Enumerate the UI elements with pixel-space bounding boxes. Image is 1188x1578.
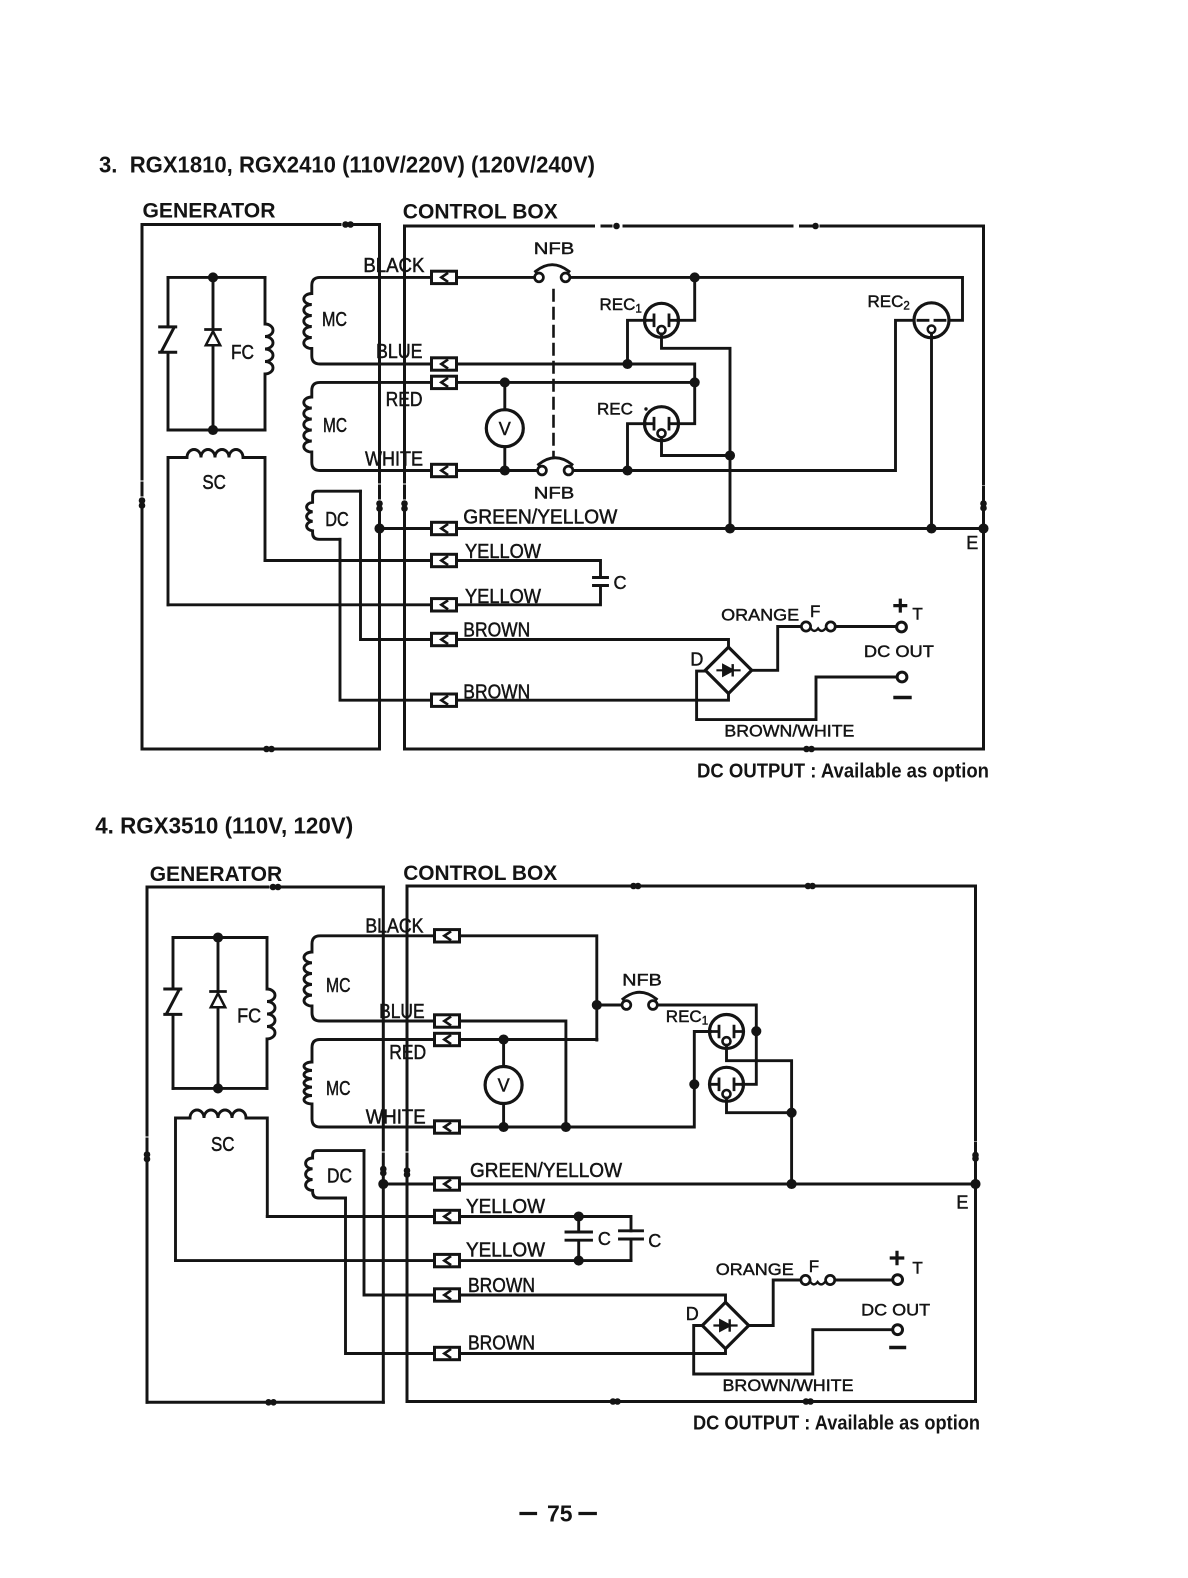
- node YELLOW2/C1: [575, 1257, 582, 1264]
- control box (dash-dot border): [403, 224, 986, 751]
- node BLUE/WHITE 2: [562, 1123, 569, 1130]
- connector YELLOW 1 (2): [435, 1210, 460, 1222]
- svg-text:GREEN/YELLOW: GREEN/YELLOW: [470, 1159, 623, 1182]
- node RED/V 2: [500, 1036, 507, 1043]
- connector BLUE 2: [435, 1015, 460, 1027]
- wire F to T 2: [835, 1279, 893, 1282]
- wire ORANGE 2: [749, 1280, 801, 1326]
- node RED end: [691, 379, 698, 386]
- connector BLACK 2: [435, 930, 460, 942]
- svg-text:DC OUTPUT : Available as optio: DC OUTPUT : Available as option: [697, 761, 989, 783]
- svg-text:E: E: [956, 1193, 968, 1213]
- node BLUE/REC1: [624, 360, 631, 367]
- wire YELLOW 1: [265, 561, 601, 578]
- breaker NFB (bottom): [538, 458, 573, 475]
- svg-text:RED: RED: [389, 1041, 426, 1064]
- svg-text:BROWN: BROWN: [463, 681, 530, 704]
- wire REC2 bottom pin to E: [930, 334, 933, 529]
- svg-text:BROWN: BROWN: [468, 1332, 535, 1355]
- node E/rec 2: [788, 1180, 795, 1187]
- svg-text:YELLOW: YELLOW: [466, 1195, 546, 1218]
- wire YELLOW 2 (2): [176, 1259, 632, 1262]
- svg-text:D: D: [686, 1304, 699, 1324]
- svg-text:NFB: NFB: [622, 971, 662, 990]
- node FC top: [209, 274, 216, 281]
- generator box (dash-dot border): [140, 223, 381, 751]
- connector BLUE: [432, 358, 457, 370]
- svg-text:YELLOW: YELLOW: [465, 540, 542, 563]
- svg-text:MC: MC: [326, 1077, 351, 1100]
- capacitor C: [594, 578, 608, 586]
- svg-text:C: C: [648, 1231, 661, 1251]
- coil MC1 (main winding 1): [304, 277, 432, 364]
- receptacle REC (lower): [645, 407, 679, 441]
- coil SC (sub coil): [168, 450, 265, 605]
- rectifier bridge D: [705, 647, 751, 693]
- connector GREEN/YELLOW: [432, 522, 457, 534]
- connector YELLOW 2 (2): [435, 1254, 460, 1266]
- wire REC lower left pin to WHITE: [628, 424, 646, 471]
- node WHITE/REC: [624, 467, 631, 474]
- connector BROWN 1 (2): [435, 1289, 460, 1301]
- breaker NFB 2: [622, 992, 657, 1009]
- svg-text:ORANGE: ORANGE: [716, 1260, 794, 1279]
- plus sign: [895, 600, 906, 611]
- node REC1 right pin 2: [753, 1028, 760, 1035]
- connector WHITE: [432, 464, 457, 476]
- svg-text:WHITE: WHITE: [365, 448, 423, 471]
- coil MC2 (main winding 2): [304, 382, 432, 470]
- connector RED: [432, 376, 457, 388]
- svg-text:DC OUT: DC OUT: [864, 642, 934, 661]
- wire E (GREEN/YELLOW earth): [380, 527, 984, 530]
- svg-text:BLACK: BLACK: [365, 915, 423, 938]
- coil SC (2): [176, 1110, 268, 1261]
- svg-text:DC OUTPUT : Available as optio: DC OUTPUT : Available as option: [693, 1413, 980, 1435]
- FC loop 2 bottom edge: [173, 1087, 267, 1090]
- svg-text:D: D: [690, 650, 703, 670]
- connector YELLOW 1: [432, 554, 457, 566]
- svg-text:WHITE: WHITE: [366, 1106, 426, 1129]
- svg-text:CONTROL BOX: CONTROL BOX: [403, 861, 558, 885]
- svg-text:4. RGX3510 (110V, 120V): 4. RGX3510 (110V, 120V): [95, 813, 353, 839]
- wire REC1 right pin to BLACK: [678, 277, 695, 320]
- svg-text:BROWN: BROWN: [468, 1274, 535, 1297]
- node gen-edge/GY: [376, 525, 383, 532]
- svg-text:BROWN/WHITE: BROWN/WHITE: [724, 721, 854, 740]
- diode 2: [217, 938, 220, 1089]
- node E at box edge 2: [972, 1180, 979, 1187]
- node E/REC bottoms: [726, 525, 733, 532]
- node E/REC2: [928, 525, 935, 532]
- svg-text:FC: FC: [231, 341, 254, 364]
- terminal T (+) 2: [893, 1275, 903, 1285]
- connector BROWN 1: [432, 633, 457, 645]
- wire BLACK: [457, 277, 963, 320]
- connector BROWN 2: [432, 694, 457, 706]
- wire RED: [457, 381, 695, 384]
- svg-text:CONTROL BOX: CONTROL BOX: [403, 200, 559, 224]
- wire F to T: [835, 625, 896, 628]
- generator box 2 (dash-dot border): [145, 885, 385, 1404]
- fuse F 2: [801, 1275, 835, 1284]
- svg-text:V: V: [498, 1076, 510, 1096]
- varistor Z (left leg of FC loop): [167, 277, 170, 430]
- receptacle REC1: [645, 303, 679, 337]
- connector WHITE 2: [435, 1121, 460, 1133]
- wire REC1 left pin to BLUE: [628, 320, 646, 364]
- svg-text:REC1: REC1: [600, 295, 642, 316]
- voltmeter V 2: [485, 1067, 522, 1104]
- terminal T (+): [897, 622, 907, 632]
- node YELLOW1/C1: [575, 1213, 582, 1220]
- connector YELLOW 2: [432, 599, 457, 611]
- node rec bottoms 2: [788, 1109, 795, 1116]
- coil MC2 (2): [304, 1040, 435, 1128]
- wire REC lower bottom pin: [662, 438, 731, 456]
- connector BROWN 2 (2): [435, 1347, 460, 1359]
- svg-text:E: E: [966, 533, 978, 553]
- svg-text:SC: SC: [202, 471, 226, 494]
- svg-text:DC: DC: [327, 1165, 352, 1188]
- wire YELLOW 1 (2): [267, 1217, 631, 1231]
- fuse F: [801, 622, 835, 631]
- wire YELLOW 2: [168, 586, 601, 605]
- svg-text:GREEN/YELLOW: GREEN/YELLOW: [463, 506, 618, 529]
- node WHITE/V 2: [500, 1123, 507, 1130]
- svg-text:C: C: [598, 1229, 611, 1249]
- FC loop 2 top edge: [173, 936, 267, 939]
- receptacle lower (2): [710, 1067, 744, 1101]
- svg-text:ORANGE: ORANGE: [721, 605, 799, 624]
- FC field-coil loop top edge: [168, 276, 265, 279]
- connector BLACK: [432, 271, 457, 283]
- receptacle REC1 (2): [710, 1015, 744, 1049]
- svg-text:MC: MC: [326, 974, 351, 997]
- node BLACK/REC1: [691, 274, 698, 281]
- svg-text:T: T: [912, 604, 922, 623]
- breaker NFB (top): [535, 265, 570, 282]
- svg-text:REC2: REC2: [868, 292, 910, 313]
- minus sign: [895, 696, 910, 699]
- svg-text:DC OUT: DC OUT: [861, 1301, 930, 1320]
- wire BROWN 2: [340, 539, 729, 700]
- wire BLUE 2: [460, 1021, 566, 1127]
- wire BLACK 2: [460, 936, 597, 1040]
- svg-text:F: F: [809, 1257, 819, 1276]
- rectifier bridge D (2): [702, 1302, 748, 1348]
- node WHITE/V: [501, 467, 508, 474]
- wire minus output 2: [694, 1326, 893, 1375]
- minus sign 2: [891, 1346, 905, 1349]
- wire lower rec right pin 2: [743, 1031, 757, 1084]
- diode (middle leg of FC loop): [212, 277, 215, 430]
- coil DC (2): [306, 1151, 364, 1198]
- svg-text:YELLOW: YELLOW: [466, 1239, 546, 1262]
- node REC bottoms joint: [726, 452, 733, 459]
- node BLACK/NFB 2: [593, 1001, 600, 1008]
- node RED/V: [501, 379, 508, 386]
- wire minus output / BROWN/WHITE: [697, 671, 898, 720]
- svg-text:3. RGX1810, RGX2410 (110V/220: 3. RGX1810, RGX2410 (110V/220V) (120V/24…: [99, 152, 595, 178]
- wire lower rec bottom pin 2: [727, 1098, 792, 1113]
- svg-text:GENERATOR: GENERATOR: [150, 862, 283, 886]
- svg-text:V: V: [499, 419, 511, 439]
- svg-text:NFB: NFB: [534, 484, 575, 503]
- capacitor C2 (2): [620, 1231, 643, 1261]
- wire NFB branch 2: [597, 1005, 757, 1031]
- svg-text:YELLOW: YELLOW: [465, 585, 542, 608]
- node FC bottom: [209, 426, 216, 433]
- svg-text:MC: MC: [322, 308, 347, 331]
- terminal minus: [897, 672, 907, 682]
- node gen-edge/GY 2: [380, 1180, 387, 1187]
- footer page number: [521, 1512, 595, 1515]
- capacitor C1 (2): [566, 1232, 592, 1240]
- svg-text:REC1: REC1: [666, 1007, 708, 1028]
- dashed link NFB-NFB: [552, 290, 555, 456]
- node FC2 bottom: [214, 1085, 221, 1092]
- FC loop bottom edge: [168, 429, 265, 432]
- wire ORANGE: [752, 627, 802, 671]
- svg-text:BROWN/WHITE: BROWN/WHITE: [723, 1376, 854, 1395]
- varistor Z 2: [172, 938, 175, 1089]
- wire REC1 bottom pin 2: [727, 1045, 792, 1184]
- control box 2 (dash-dot border): [405, 884, 977, 1403]
- connector RED 2: [435, 1033, 460, 1045]
- svg-text:BLUE: BLUE: [379, 1000, 425, 1023]
- wire BROWN 1: [361, 491, 729, 646]
- svg-text:F: F: [810, 602, 820, 621]
- svg-text:MC: MC: [323, 414, 347, 437]
- svg-text:75: 75: [547, 1501, 573, 1527]
- plus sign 2: [891, 1252, 902, 1263]
- svg-text:T: T: [912, 1259, 922, 1278]
- voltmeter V 2 branch: [502, 1040, 505, 1128]
- node E at box edge: [980, 525, 987, 532]
- voltmeter V branch: [503, 382, 506, 470]
- svg-text:RED: RED: [386, 388, 423, 411]
- svg-text:FC: FC: [237, 1005, 261, 1028]
- wire BROWN 1 (2): [364, 1151, 726, 1302]
- svg-text:NFB: NFB: [534, 239, 575, 258]
- coil MC1 (2): [304, 936, 435, 1021]
- coil DC (DC winding): [307, 491, 361, 539]
- node rec left pins 2: [691, 1081, 698, 1088]
- svg-text:BLACK: BLACK: [363, 254, 424, 277]
- svg-text:BLUE: BLUE: [376, 340, 423, 363]
- svg-text:BROWN: BROWN: [463, 619, 530, 642]
- wire E 2: [383, 1183, 975, 1186]
- wire RED 2: [460, 1038, 597, 1041]
- receptacle REC2: [914, 303, 949, 338]
- wire BROWN 2 (2): [346, 1198, 726, 1354]
- connector GREEN/YELLOW 2: [435, 1178, 460, 1190]
- svg-text:DC: DC: [325, 508, 349, 531]
- node FC2 top: [214, 934, 221, 941]
- wire REC1 left pin down 2: [694, 1032, 710, 1085]
- voltmeter V: [486, 410, 523, 447]
- terminal minus 2: [893, 1325, 903, 1335]
- wire WHITE: [457, 320, 915, 470]
- svg-text:REC: REC: [597, 400, 633, 419]
- wire REC1 bottom pin: [662, 334, 731, 529]
- coil FC (right leg): [265, 277, 273, 430]
- svg-text:SC: SC: [211, 1133, 235, 1156]
- svg-text:C: C: [614, 573, 627, 593]
- wire WHITE 2: [460, 1084, 695, 1127]
- wire BLUE: [457, 364, 695, 424]
- svg-text:GENERATOR: GENERATOR: [143, 199, 276, 223]
- capacitor C1 (2) branch: [577, 1217, 580, 1261]
- coil FC 2: [267, 938, 275, 1089]
